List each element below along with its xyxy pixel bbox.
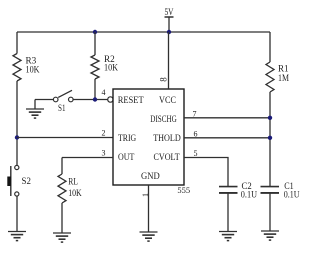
wire S2 to ground xyxy=(16,196,18,231)
resistor RL 10K xyxy=(58,174,82,203)
svg-text:2: 2 xyxy=(102,129,106,138)
switch S2 pushbutton xyxy=(7,165,31,196)
node junction at 5V rail xyxy=(167,30,171,34)
wire R2 top lead xyxy=(94,32,96,55)
wire TRIG pin 2 xyxy=(17,137,113,139)
capacitor C2 0.1U xyxy=(219,181,257,200)
wire ground to S1 xyxy=(35,99,53,101)
svg-text:10K: 10K xyxy=(104,63,118,73)
resistor R1 1M xyxy=(266,62,289,92)
wire RL top lead xyxy=(61,158,63,175)
wire DISCHG pin 7 xyxy=(184,117,270,119)
svg-text:3: 3 xyxy=(102,148,106,157)
wire R2 bottom lead xyxy=(94,79,96,100)
svg-text:OUT: OUT xyxy=(118,153,135,163)
wire RL bottom lead xyxy=(61,203,63,233)
wire C2 to ground xyxy=(227,193,229,232)
svg-text:8: 8 xyxy=(159,77,169,82)
ground below C2 xyxy=(219,231,237,233)
resistor R2 10K xyxy=(91,54,118,79)
wire S1 to pin 4 xyxy=(73,99,108,101)
svg-text:RESET: RESET xyxy=(118,96,144,106)
ground below 555 xyxy=(140,231,158,233)
svg-text:1M: 1M xyxy=(278,73,289,83)
svg-text:VCC: VCC xyxy=(159,96,176,106)
svg-text:S2: S2 xyxy=(22,176,31,186)
wire CVOLT pin 5 xyxy=(184,158,228,187)
svg-text:TRIG: TRIG xyxy=(118,134,136,144)
svg-text:S1: S1 xyxy=(58,103,66,113)
switch S1 xyxy=(53,90,73,113)
node junction TRIG / left rail xyxy=(15,135,19,139)
svg-text:10K: 10K xyxy=(26,64,40,74)
resistor R3 10K xyxy=(13,54,40,82)
RESET inversion bubble xyxy=(108,97,113,102)
node junction pin7 / R1 xyxy=(268,116,272,120)
ground below C1 xyxy=(261,230,279,232)
node junction R2 / top rail xyxy=(93,30,97,34)
svg-text:5V: 5V xyxy=(165,7,174,17)
ground below S2 xyxy=(8,231,26,233)
node junction pin6 / R1 xyxy=(268,136,272,140)
wire OUT pin 3 xyxy=(62,157,113,159)
svg-text:4: 4 xyxy=(102,88,106,97)
wire C1 to ground xyxy=(269,193,271,231)
555 IC pin labels xyxy=(118,96,181,182)
svg-text:1: 1 xyxy=(141,193,150,197)
wire top power rail xyxy=(17,31,270,33)
svg-text:RL: RL xyxy=(68,177,78,187)
svg-text:DISCHG: DISCHG xyxy=(150,115,177,125)
svg-text:R1: R1 xyxy=(278,64,289,74)
svg-text:6: 6 xyxy=(194,129,198,138)
wire R1 to C1 xyxy=(269,92,271,187)
svg-text:10K: 10K xyxy=(68,188,82,198)
svg-text:0.1U: 0.1U xyxy=(284,190,300,200)
wire GND pin 1 xyxy=(148,185,150,232)
op-amp U1 555 timer box xyxy=(113,89,184,185)
ground at S1 xyxy=(34,100,36,110)
svg-text:CVOLT: CVOLT xyxy=(154,153,180,163)
5V supply xyxy=(165,7,174,32)
svg-text:7: 7 xyxy=(193,109,197,118)
svg-text:555: 555 xyxy=(177,186,190,195)
svg-text:5: 5 xyxy=(194,149,198,158)
wire left rail mid xyxy=(16,81,18,165)
wire THOLD pin 6 xyxy=(184,137,270,139)
capacitor C1 0.1U xyxy=(261,181,300,200)
svg-text:GND: GND xyxy=(141,172,160,182)
ground below RL xyxy=(53,232,71,234)
svg-text:THOLD: THOLD xyxy=(153,134,181,144)
svg-text:0.1U: 0.1U xyxy=(241,190,258,200)
wire left rail upper xyxy=(16,32,18,54)
wire R1 top lead xyxy=(269,32,271,62)
wire VCC pin 8 xyxy=(168,32,170,89)
node junction R2 / S1 / RESET xyxy=(93,97,97,101)
